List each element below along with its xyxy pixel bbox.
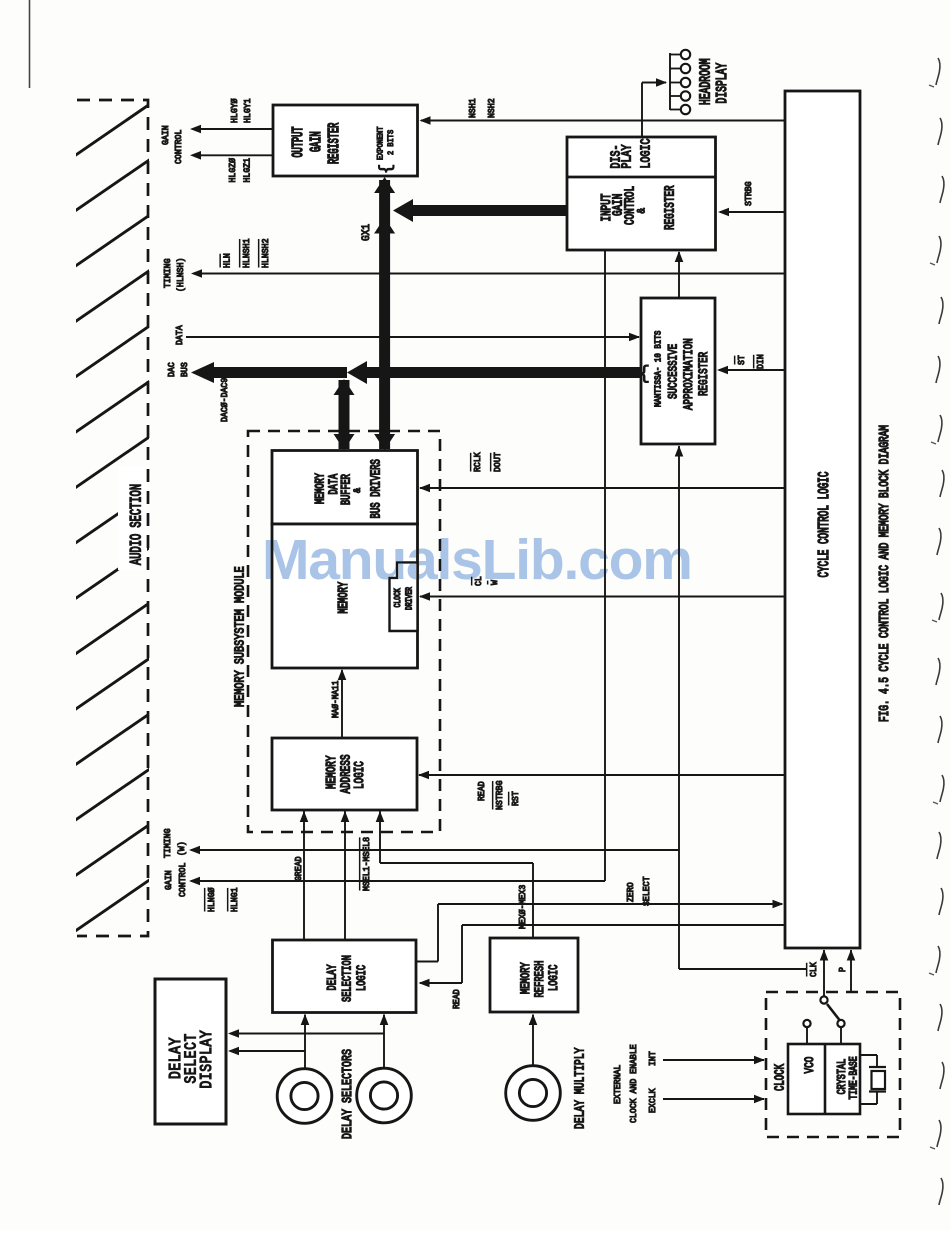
svg-text:HLN: HLN [222, 253, 233, 268]
svg-text:&: & [351, 488, 363, 493]
svg-text:OUTPUT: OUTPUT [290, 127, 307, 158]
svg-text:RST: RST [511, 791, 522, 806]
svg-text:READ: READ [452, 989, 463, 1009]
svg-text:MSEL1-MSEL8: MSEL1-MSEL8 [362, 837, 373, 891]
svg-text:HLGY1: HLGY1 [243, 98, 254, 123]
svg-text:(W): (W) [177, 841, 188, 856]
svg-text:DIN: DIN [756, 354, 767, 369]
svg-text:CYCLE CONTROL LOGIC: CYCLE CONTROL LOGIC [816, 472, 833, 578]
svg-text:CONTROL: CONTROL [178, 863, 189, 897]
svg-text:GAIN: GAIN [308, 131, 325, 152]
svg-text:P: P [838, 967, 849, 972]
svg-text:CLOCK AND ENABLE: CLOCK AND ENABLE [629, 1044, 640, 1123]
svg-text:HLNSH2: HLNSH2 [261, 238, 272, 268]
svg-text:GX1: GX1 [360, 224, 373, 241]
svg-text:REGISTER: REGISTER [662, 185, 678, 230]
svg-text:LOGIC: LOGIC [548, 964, 562, 991]
svg-text:MEMORY: MEMORY [520, 962, 534, 994]
svg-text:MEMORY SUBSYSTEM MODULE: MEMORY SUBSYSTEM MODULE [232, 566, 248, 707]
svg-text:MEMORY: MEMORY [314, 473, 328, 504]
svg-text:STRBG: STRBG [744, 181, 755, 206]
svg-text:BUS DRIVERS: BUS DRIVERS [369, 459, 384, 518]
svg-text:MAØ-MA11: MAØ-MA11 [331, 681, 342, 718]
svg-text:DISPLAY: DISPLAY [714, 62, 730, 103]
svg-text:2 BITS: 2 BITS [388, 129, 397, 155]
svg-text:LOGIC: LOGIC [351, 761, 367, 789]
svg-text:GAIN: GAIN [161, 125, 172, 145]
svg-text:HLNGØ: HLNGØ [207, 887, 218, 912]
svg-text:MEXØ-MEX3: MEXØ-MEX3 [518, 885, 529, 929]
svg-text:REGISTER: REGISTER [326, 123, 343, 164]
svg-text:GAIN: GAIN [164, 870, 175, 890]
svg-text:HLGZØ: HLGZØ [228, 157, 239, 182]
svg-text:DELAY MULTIPLY: DELAY MULTIPLY [572, 1048, 588, 1129]
svg-text:DAC: DAC [167, 362, 178, 377]
svg-text:REGISTER: REGISTER [698, 352, 712, 396]
svg-text:TIMING: TIMING [163, 258, 174, 288]
svg-text:APPROXIMATION: APPROXIMATION [683, 338, 697, 410]
svg-text:DISPLAY: DISPLAY [199, 1030, 217, 1089]
svg-text:AUDIO SECTION: AUDIO SECTION [128, 484, 146, 565]
svg-text:HEADROOM: HEADROOM [698, 58, 714, 105]
svg-text:DATA: DATA [175, 325, 186, 345]
svg-text:EXPONENT: EXPONENT [377, 126, 386, 160]
svg-text:LOGIC: LOGIC [356, 965, 370, 991]
svg-text:DELAY: DELAY [326, 964, 340, 990]
svg-text:NSH1: NSH1 [468, 98, 479, 118]
svg-text:DOUT: DOUT [493, 452, 504, 472]
svg-text:&: & [636, 208, 649, 214]
svg-text:HLGZ1: HLGZ1 [242, 158, 253, 183]
svg-text:VCO: VCO [803, 1056, 818, 1073]
svg-text:(HLNSH): (HLNSH) [176, 258, 187, 292]
svg-text:FIG. 4.5 CYCLE CONTROL LOGIC: FIG. 4.5 CYCLE CONTROL LOGIC AND MEMORY … [876, 425, 892, 722]
svg-text:CLOCK: CLOCK [772, 1063, 789, 1091]
svg-text:TIMING: TIMING [163, 828, 174, 858]
svg-text:GREAD: GREAD [294, 856, 305, 881]
svg-text:READ: READ [477, 781, 488, 801]
svg-text:HLNSH1: HLNSH1 [242, 238, 253, 268]
svg-text:REFRESH: REFRESH [534, 961, 548, 998]
svg-text:TIME-BASE: TIME-BASE [847, 1056, 860, 1099]
svg-text:CLK: CLK [809, 962, 820, 977]
svg-text:EXTERNAL: EXTERNAL [613, 1065, 624, 1104]
svg-text:HLGYØ: HLGYØ [230, 98, 241, 123]
svg-text:INT: INT [648, 1051, 659, 1066]
svg-text:SELECTION: SELECTION [341, 955, 355, 1002]
svg-text:DELAY SELECTORS: DELAY SELECTORS [339, 1049, 355, 1139]
svg-text:SELECT: SELECT [642, 876, 653, 906]
svg-text:SUCCESSIVE: SUCCESSIVE [667, 344, 681, 399]
svg-text:ST: ST [737, 355, 748, 365]
svg-text:{: { [639, 365, 650, 385]
svg-text:CONTROL: CONTROL [622, 186, 638, 225]
svg-text:NSTRBG: NSTRBG [495, 780, 506, 810]
svg-text:MANTISSA- 10 BITS: MANTISSA- 10 BITS [654, 331, 664, 407]
svg-text:BUS: BUS [180, 362, 191, 377]
svg-text:PLAY: PLAY [619, 144, 635, 169]
svg-text:LOGIC: LOGIC [638, 139, 654, 169]
svg-text:ZERO: ZERO [626, 882, 637, 902]
svg-text:{: { [378, 164, 397, 174]
svg-text:HLNG1: HLNG1 [230, 887, 241, 912]
svg-text:CONTROL: CONTROL [174, 130, 185, 164]
svg-text:NSH2: NSH2 [487, 98, 498, 118]
svg-text:EXCLK: EXCLK [648, 1088, 659, 1113]
svg-text:ManualsLib.com: ManualsLib.com [262, 528, 692, 592]
svg-text:DACØ-DAC9: DACØ-DAC9 [220, 378, 231, 422]
svg-text:RCLK: RCLK [473, 452, 484, 472]
